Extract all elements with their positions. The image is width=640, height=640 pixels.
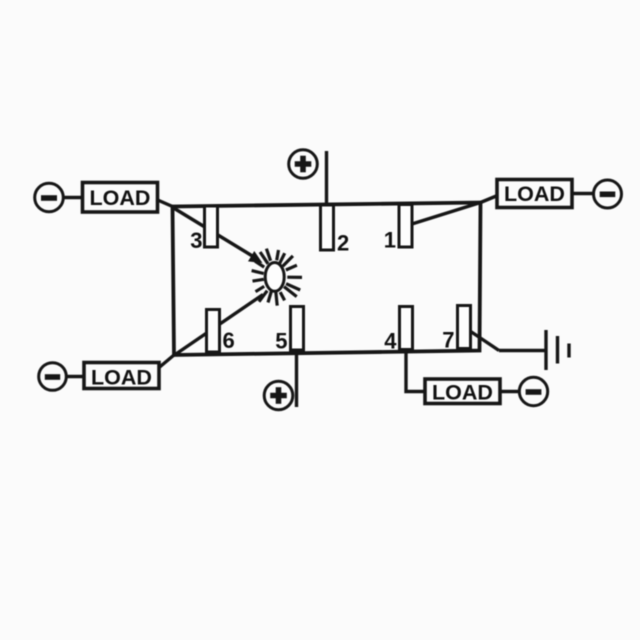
wire switch corner to load (top-right) <box>481 196 498 203</box>
load box (top-left) <box>83 183 158 213</box>
svg-text:LOAD: LOAD <box>432 381 493 405</box>
load box (bottom-right) <box>425 379 500 405</box>
terminal 6 <box>207 310 220 353</box>
svg-text:5: 5 <box>275 329 287 354</box>
lamp DS1 <box>252 249 302 306</box>
svg-text:6: 6 <box>223 328 235 353</box>
load box (top-right) <box>497 180 572 208</box>
wire terminal 4 down to load (bottom-right) <box>406 348 425 392</box>
wire to ground <box>499 349 545 352</box>
wire load to minus (top-right) <box>572 192 594 195</box>
terminal 3 <box>205 206 218 247</box>
ground <box>546 330 569 370</box>
minus terminal (bottom-right) <box>519 377 547 405</box>
plus terminal (top) <box>289 150 318 179</box>
terminal 5 <box>291 307 304 351</box>
svg-text:1: 1 <box>384 228 396 253</box>
wire lamp feed from top-left corner (into arrow) <box>172 207 254 257</box>
svg-text:2: 2 <box>337 231 349 256</box>
wire load to minus (bottom-left) <box>67 375 85 378</box>
wire terminal 1 to top-right corner <box>406 203 481 227</box>
minus terminal (top-left) <box>35 183 64 212</box>
wire switch corner to load (bottom-left) <box>159 355 175 368</box>
svg-text:4: 4 <box>384 329 397 354</box>
wire load to minus (top-left) <box>64 196 83 199</box>
terminal 1 <box>399 205 412 248</box>
svg-text:LOAD: LOAD <box>90 186 151 210</box>
terminal 4 <box>400 307 413 350</box>
wire terminal 7 to ground run <box>464 327 499 351</box>
minus terminal (bottom-left) <box>39 363 67 391</box>
wire lamp return to bottom-left corner <box>175 295 264 356</box>
svg-text:LOAD: LOAD <box>91 366 152 390</box>
terminal 2 <box>321 205 334 250</box>
wire load to switch corner (top-left) <box>157 200 173 207</box>
switch body outline <box>173 203 481 356</box>
svg-text:7: 7 <box>442 328 454 353</box>
svg-text:3: 3 <box>190 228 202 253</box>
svg-text:LOAD: LOAD <box>504 182 565 206</box>
terminal 7 <box>458 306 471 349</box>
plus terminal (bottom) <box>264 381 293 410</box>
load box (bottom-left) <box>84 363 159 390</box>
battery positive feed wire (top, terminal 2) <box>325 151 328 206</box>
battery positive feed wire (bottom, terminal 5) <box>295 350 298 407</box>
minus terminal (top-right) <box>594 180 622 208</box>
arrowhead at lamp <box>248 251 263 263</box>
wire load to minus (bottom-right) <box>500 390 520 393</box>
